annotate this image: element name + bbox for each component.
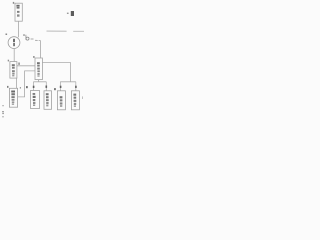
- circle inner glyph: [13, 39, 15, 42]
- drop to box B: [45, 82, 47, 91]
- dash 2: [35, 39, 38, 41]
- label of box 4: [13, 2, 14, 4]
- machine circle 1: [8, 37, 20, 49]
- wire box5 to box3: [17, 65, 35, 67]
- bus left: [33, 81, 46, 83]
- label 6: [26, 86, 28, 88]
- dash line segment 1 (top right): [47, 30, 67, 32]
- box 5 (left middle): [10, 62, 17, 79]
- bus right: [60, 81, 76, 83]
- box A vertical text: [33, 93, 36, 95]
- box B (bottom row 2): [44, 91, 52, 110]
- box 3 (center): [35, 58, 42, 80]
- box 7 vertical text: [11, 91, 15, 93]
- paper background: [0, 0, 84, 120]
- wire box3 bottom: [38, 80, 40, 82]
- wire box5 to box7: [15, 78, 17, 88]
- margin mark c (bottom-left): [2, 116, 4, 117]
- label 8: [33, 86, 35, 88]
- box C (bottom row 3): [57, 91, 65, 110]
- box 4 vertical text: [16, 5, 19, 17]
- dash line segment 2 (top right): [73, 30, 84, 32]
- small label right of box7 corner: [20, 87, 21, 89]
- wire circle to box 5: [13, 49, 15, 62]
- label 2 near circle top-right: [23, 35, 25, 36]
- faint mark right of box D: [82, 96, 83, 99]
- label of box 7 (top-left): [7, 86, 9, 88]
- drop to box A: [32, 82, 34, 91]
- box 4 (top component box): [15, 3, 22, 21]
- label 9: [46, 86, 48, 88]
- label right of box 5 top: [18, 63, 19, 65]
- wire box3 left, down to box 7: [18, 71, 35, 97]
- box C vertical text: [60, 96, 63, 98]
- label 11: [75, 86, 77, 88]
- label of box 3 (top-left): [33, 56, 35, 58]
- fig mark (top right): [71, 11, 74, 16]
- box D (bottom row 4): [71, 91, 79, 110]
- box A (bottom row 1): [31, 91, 40, 109]
- label of box 5 (top-left): [8, 60, 9, 62]
- drop to box C: [59, 82, 61, 91]
- box 3 vertical text: [37, 62, 40, 64]
- box B vertical text: [46, 93, 49, 95]
- label 10: [60, 86, 62, 88]
- margin mark b (bottom-left): [2, 111, 4, 112]
- box 5 vertical text: [12, 64, 15, 66]
- wire box4 to circle: [17, 21, 19, 37]
- margin mark a (bottom-left): [2, 104, 4, 107]
- box D vertical text: [73, 94, 76, 96]
- wire box3 right, over and down: [42, 63, 70, 82]
- label 1: [6, 34, 8, 36]
- box 7 (bottom-left): [9, 88, 17, 107]
- label between box B and C: [54, 88, 56, 90]
- contact b (small circle with stem): [26, 37, 29, 40]
- drop to box D: [75, 82, 77, 91]
- wire corner down to box 3: [39, 41, 41, 58]
- dash 1: [31, 38, 34, 40]
